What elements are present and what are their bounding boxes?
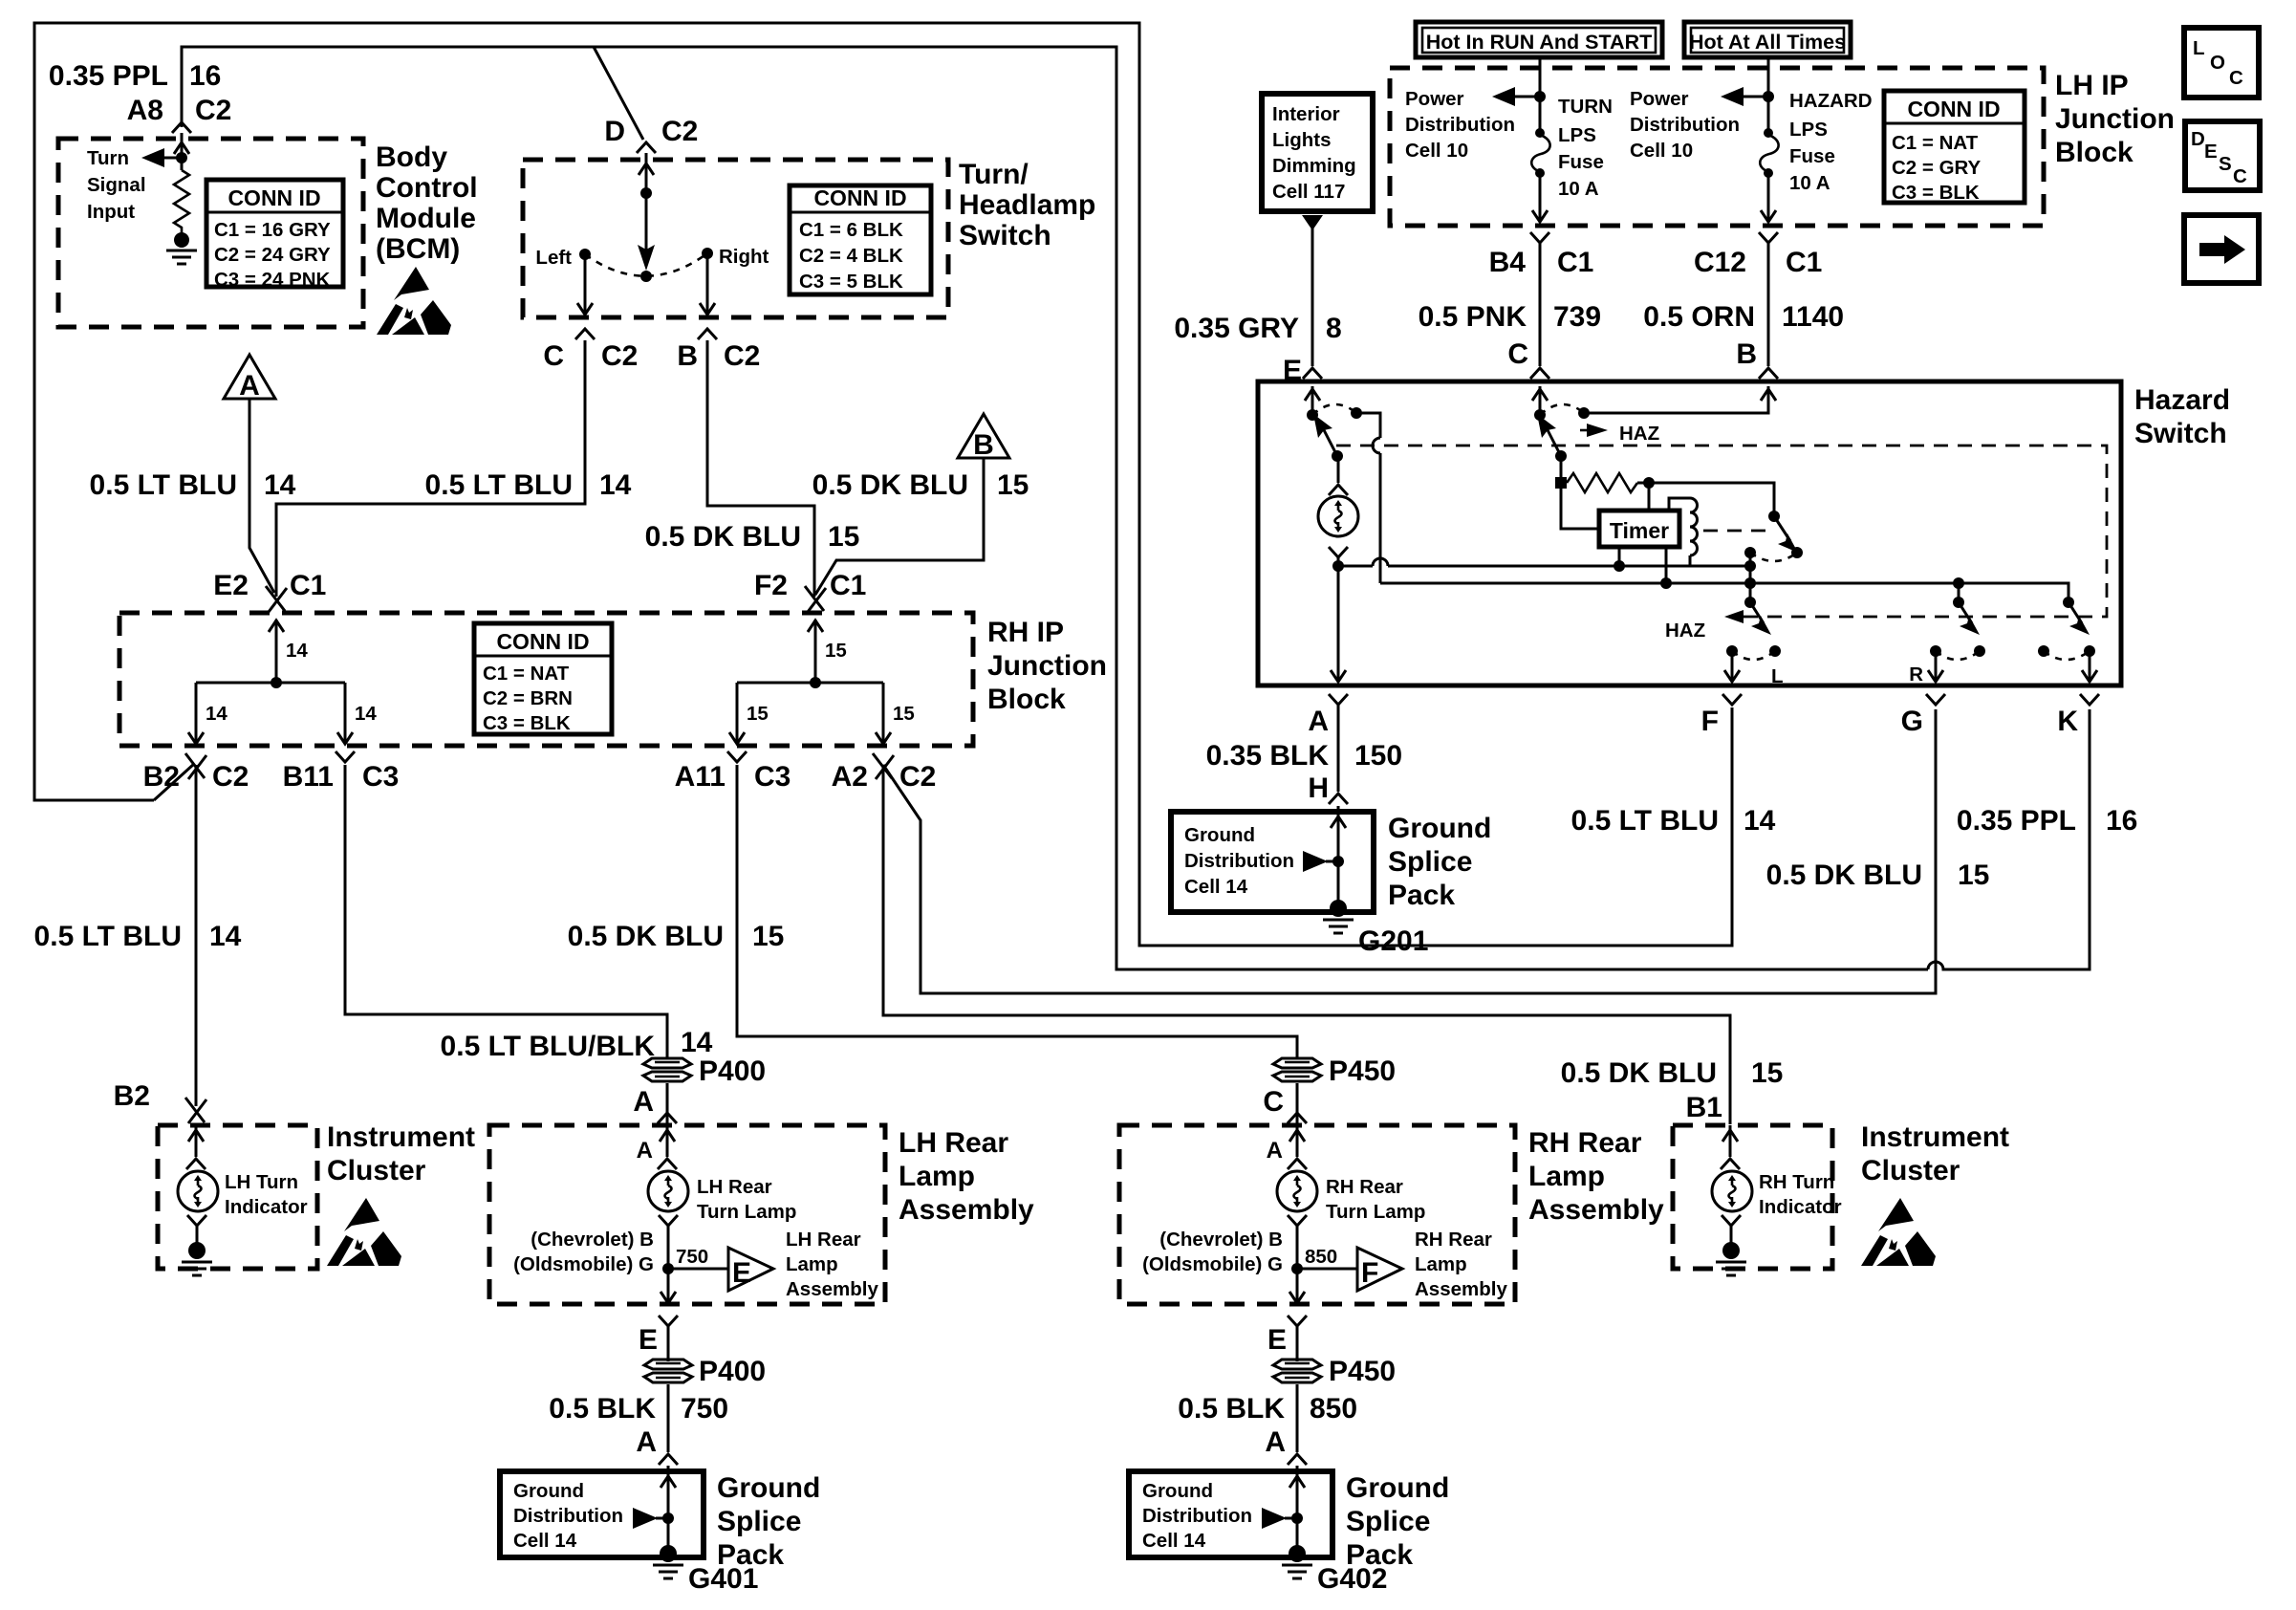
svg-text:CONN ID: CONN ID <box>496 629 589 654</box>
svg-text:14: 14 <box>209 921 242 952</box>
Ground Splice Pack G402 box <box>1129 1471 1332 1557</box>
svg-text:Power: Power <box>1405 88 1464 110</box>
svg-text:Indicator: Indicator <box>1759 1196 1842 1218</box>
svg-text:0.5 LT BLU: 0.5 LT BLU <box>34 921 182 952</box>
svg-text:LH Rear: LH Rear <box>786 1229 861 1251</box>
svg-text:Fuse: Fuse <box>1789 145 1835 167</box>
svg-text:B2: B2 <box>114 1080 150 1112</box>
wire: hop over G wire then continue to K <box>1928 709 2090 969</box>
svg-text:Distribution: Distribution <box>1405 114 1515 136</box>
wire: triangle B down, left, diagonal to F2 <box>815 458 984 595</box>
svg-text:P450: P450 <box>1329 1356 1396 1387</box>
branch to A11 <box>736 683 739 742</box>
svg-text:RH Turn: RH Turn <box>1759 1171 1834 1193</box>
svg-text:15: 15 <box>1751 1057 1783 1089</box>
svg-text:0.5 DK BLU: 0.5 DK BLU <box>568 921 724 952</box>
wire: into lamp <box>666 1125 669 1157</box>
ground G401 <box>660 1545 677 1562</box>
wire: A2 diagonal branch to hazard G <box>883 709 1936 993</box>
Body Control Module dashed box <box>58 139 363 327</box>
svg-text:C: C <box>1263 1086 1284 1118</box>
svg-text:Pack: Pack <box>1388 880 1455 911</box>
svg-text:Turn Lamp: Turn Lamp <box>697 1201 796 1223</box>
connector H <box>1329 794 1348 804</box>
svg-text:Assembly: Assembly <box>786 1278 878 1300</box>
branch to B11 <box>344 683 347 742</box>
svg-text:C3 = BLK: C3 = BLK <box>483 712 571 734</box>
svg-text:Instrument: Instrument <box>327 1121 475 1153</box>
svg-text:Assembly: Assembly <box>899 1194 1034 1226</box>
svg-text:0.5 LT BLU/BLK: 0.5 LT BLU/BLK <box>441 1031 656 1062</box>
coil actuation dashed <box>1703 530 1766 533</box>
connector P400 upper <box>643 1058 691 1081</box>
svg-text:C: C <box>543 340 564 372</box>
svg-text:Junction: Junction <box>987 650 1107 682</box>
svg-text:F2: F2 <box>754 570 788 601</box>
svg-text:C3: C3 <box>362 761 399 793</box>
svg-text:A: A <box>636 1426 657 1458</box>
wire: B2 down to LH instrument cluster <box>195 765 198 1106</box>
svg-text:14: 14 <box>1744 805 1776 837</box>
connector P400 lower <box>644 1360 692 1382</box>
svg-text:Headlamp: Headlamp <box>959 189 1095 221</box>
node Left <box>579 249 591 260</box>
lamp RH turn indicator <box>1712 1171 1752 1211</box>
svg-text:0.5 BLK: 0.5 BLK <box>549 1393 656 1425</box>
wire: A8 pin into BCM <box>181 133 184 170</box>
svg-text:15: 15 <box>997 469 1029 501</box>
svg-text:Switch: Switch <box>959 220 1051 251</box>
svg-text:C1 = NAT: C1 = NAT <box>483 663 570 685</box>
wire: A11 down and right to P450 <box>737 765 1297 1058</box>
svg-text:Instrument: Instrument <box>1861 1121 2009 1153</box>
wire: resistor junction to timer top <box>1648 483 1651 511</box>
svg-text:Cell 14: Cell 14 <box>513 1530 577 1552</box>
svg-text:16: 16 <box>2106 805 2137 837</box>
svg-text:14: 14 <box>681 1027 713 1058</box>
svg-text:B4: B4 <box>1489 247 1527 278</box>
wire: B4 down to hazard C input <box>1539 243 1542 366</box>
hazard C input arrow <box>1539 386 1542 415</box>
svg-text:0.5 LT BLU: 0.5 LT BLU <box>90 469 237 501</box>
svg-text:E2: E2 <box>213 570 249 601</box>
svg-text:C2: C2 <box>724 340 760 372</box>
svg-text:G: G <box>1901 706 1923 737</box>
LH Rear Lamp Assembly dashed box <box>489 1125 885 1304</box>
svg-text:E: E <box>2204 141 2218 163</box>
wire: R contact to G output <box>1935 651 1938 681</box>
svg-text:Module: Module <box>376 203 476 234</box>
wire: lamp return to box bottom <box>667 1269 670 1302</box>
ESD symbol LH cluster <box>327 1198 401 1266</box>
switch lamp <box>1337 456 1340 483</box>
ground G201 <box>1330 900 1347 917</box>
svg-text:LH Rear: LH Rear <box>697 1176 772 1198</box>
connector A11 C3 <box>727 751 747 762</box>
svg-text:Ground: Ground <box>1142 1480 1213 1502</box>
svg-text:C: C <box>1507 338 1528 370</box>
RH Instrument Cluster dashed box <box>1673 1125 1832 1269</box>
svg-text:LPS: LPS <box>1789 119 1828 141</box>
R switch arm <box>1959 602 1972 623</box>
svg-text:A8: A8 <box>127 95 163 126</box>
svg-text:739: 739 <box>1553 301 1601 333</box>
svg-text:14: 14 <box>286 640 308 662</box>
svg-text:B: B <box>677 340 698 372</box>
connector E below box <box>1288 1316 1307 1326</box>
svg-text:0.35 BLK: 0.35 BLK <box>1206 740 1330 772</box>
svg-text:150: 150 <box>1354 740 1402 772</box>
relay coil <box>1669 498 1690 511</box>
svg-text:G201: G201 <box>1358 925 1428 957</box>
svg-text:14: 14 <box>355 703 377 725</box>
svg-text:Right: Right <box>719 246 769 268</box>
svg-text:L: L <box>1771 665 1784 687</box>
svg-text:RH Rear: RH Rear <box>1415 1229 1492 1251</box>
connector K below hazard box <box>2080 694 2099 705</box>
svg-text:Pack: Pack <box>717 1539 784 1571</box>
svg-text:TURN: TURN <box>1558 96 1613 118</box>
svg-text:LH Rear: LH Rear <box>899 1127 1008 1159</box>
wire: C12 down to hazard B input <box>1767 243 1770 366</box>
svg-text:A: A <box>1308 706 1329 737</box>
svg-text:C3 = BLK: C3 = BLK <box>1892 182 1980 204</box>
wire: 0.5 LT BLU 14 loop from hazard F around page to B2 <box>34 23 1732 946</box>
wire: C hazard contact over to B input <box>1584 386 1768 413</box>
svg-text:Ground: Ground <box>717 1472 820 1504</box>
svg-text:L: L <box>2193 37 2205 59</box>
svg-text:(Oldsmobile) G: (Oldsmobile) G <box>513 1253 654 1275</box>
svg-text:0.5 DK BLU: 0.5 DK BLU <box>1766 859 1922 891</box>
connector C C2 <box>575 329 595 339</box>
svg-text:0.5 ORN: 0.5 ORN <box>1643 301 1755 333</box>
R switch pivot from bus <box>1958 583 1960 602</box>
svg-text:P450: P450 <box>1329 1055 1396 1087</box>
connector D C2 <box>637 142 656 153</box>
svg-text:P400: P400 <box>699 1055 766 1087</box>
svg-text:Assembly: Assembly <box>1415 1278 1507 1300</box>
svg-text:A11: A11 <box>675 761 726 793</box>
svg-text:Turn: Turn <box>87 147 129 169</box>
RH IP Junction Block dashed box <box>119 613 973 746</box>
wire: diagonal into B2 pin <box>154 764 194 800</box>
svg-text:Timer: Timer <box>1610 518 1669 543</box>
svg-text:LPS: LPS <box>1558 124 1596 146</box>
CONN ID table LH IP <box>1884 91 2025 204</box>
internal bus right <box>737 682 883 685</box>
svg-text:Turn/: Turn/ <box>959 159 1029 190</box>
lamp RH rear turn lamp <box>1277 1171 1317 1211</box>
svg-text:1140: 1140 <box>1782 301 1844 333</box>
svg-text:C3 = 24 PNK: C3 = 24 PNK <box>214 269 331 291</box>
svg-text:0.5 LT BLU: 0.5 LT BLU <box>425 469 573 501</box>
ESD symbol BCM <box>377 267 451 335</box>
svg-text:Distribution: Distribution <box>513 1505 623 1527</box>
svg-text:CONN ID: CONN ID <box>813 185 906 210</box>
svg-text:0.5 PNK: 0.5 PNK <box>1419 301 1527 333</box>
svg-text:(Oldsmobile) G: (Oldsmobile) G <box>1142 1253 1283 1275</box>
svg-text:15: 15 <box>1958 859 1989 891</box>
svg-text:15: 15 <box>893 703 915 725</box>
connector P450 lower <box>1273 1360 1321 1382</box>
svg-text:0.5 LT BLU: 0.5 LT BLU <box>1571 805 1719 837</box>
svg-text:14: 14 <box>599 469 632 501</box>
svg-text:A2: A2 <box>832 761 868 793</box>
svg-text:Ground: Ground <box>1388 813 1491 844</box>
fuse TURN LPS 10 A <box>1535 128 1545 138</box>
K switch arm <box>2069 602 2082 623</box>
LH IP Junction Block dashed box <box>1390 68 2044 226</box>
svg-text:RH IP: RH IP <box>987 617 1064 648</box>
svg-text:Input: Input <box>87 201 135 223</box>
wiper travel arc <box>585 253 707 276</box>
svg-text:Ground: Ground <box>513 1480 584 1502</box>
branch to A2 <box>882 683 885 742</box>
wire: HAZARD feed from Hot At All Times box <box>1767 57 1770 132</box>
C wiper arm <box>1545 424 1561 456</box>
svg-text:Indicator: Indicator <box>225 1196 308 1218</box>
svg-text:Cell 14: Cell 14 <box>1184 876 1248 898</box>
svg-text:C2 = 24 GRY: C2 = 24 GRY <box>214 244 331 266</box>
DESC reference box <box>2185 121 2260 190</box>
timer bottom taps <box>1618 547 1621 566</box>
connector P450 upper <box>1273 1058 1321 1081</box>
svg-text:LH IP: LH IP <box>2055 70 2129 101</box>
svg-text:Junction: Junction <box>2055 103 2175 135</box>
svg-text:C1: C1 <box>830 570 866 601</box>
svg-text:A: A <box>239 370 260 402</box>
svg-text:850: 850 <box>1305 1246 1337 1268</box>
svg-text:Cell 10: Cell 10 <box>1405 140 1468 162</box>
wire: E hazard contact to flasher bus <box>1356 413 1380 438</box>
CONN ID table BCM <box>206 180 343 291</box>
wire: relay contact down to L switch pivot <box>1749 553 1752 602</box>
wire: dimming feed down to hazard E input <box>1302 215 1323 230</box>
svg-text:Distribution: Distribution <box>1630 114 1740 136</box>
svg-text:C2: C2 <box>195 95 231 126</box>
svg-text:Interior: Interior <box>1272 103 1340 125</box>
E wiper arm <box>1321 424 1337 456</box>
wire: D pin into switch <box>645 153 648 193</box>
svg-text:C1: C1 <box>1557 247 1593 278</box>
connector A below hazard box <box>1329 694 1348 705</box>
wire: Left contact to C pin <box>584 254 587 314</box>
svg-text:Lamp: Lamp <box>1415 1253 1467 1275</box>
connector A2 C2 <box>873 753 894 779</box>
svg-text:F: F <box>1701 706 1719 737</box>
wire: lamp return to box bottom <box>1296 1269 1299 1302</box>
connector F below hazard box <box>1722 694 1742 705</box>
resistor R in BCM <box>174 170 189 233</box>
connector F2 C1 <box>805 586 826 612</box>
junction block internal: F2 arrow to bus <box>814 620 817 683</box>
svg-text:Dimming: Dimming <box>1272 155 1356 177</box>
svg-text:HAZARD: HAZARD <box>1789 90 1873 112</box>
svg-text:Lamp: Lamp <box>899 1161 975 1192</box>
svg-text:C3: C3 <box>754 761 791 793</box>
Interior Lights Dimming box <box>1262 94 1373 211</box>
svg-text:0.35 PPL: 0.35 PPL <box>1957 805 2076 837</box>
connector below lamp <box>1288 1215 1307 1226</box>
LOC reference box <box>2184 28 2259 98</box>
svg-text:D: D <box>604 116 625 147</box>
wire: lamp bus with hop <box>1338 565 1373 568</box>
svg-text:C1 = NAT: C1 = NAT <box>1892 132 1979 154</box>
wire: resistor lower tap to timer <box>1561 489 1599 529</box>
svg-text:S: S <box>2219 153 2232 175</box>
wire: L contact to F output <box>1731 651 1734 681</box>
connector B2 C2 <box>185 753 206 779</box>
C wiper travel arc <box>1540 404 1584 415</box>
svg-text:D: D <box>2191 128 2205 150</box>
svg-text:B: B <box>1736 338 1757 370</box>
svg-text:Left: Left <box>535 247 572 269</box>
wire: into lamp <box>1296 1125 1299 1157</box>
svg-text:Switch: Switch <box>2134 418 2227 449</box>
svg-text:(Chevrolet) B: (Chevrolet) B <box>531 1229 654 1251</box>
svg-text:10 A: 10 A <box>1789 172 1830 194</box>
timer box <box>1599 511 1679 547</box>
fuse HAZARD LPS 10 A <box>1764 128 1773 138</box>
svg-text:C2: C2 <box>661 116 698 147</box>
CONN ID table RH IP <box>474 623 612 734</box>
Hot In RUN And START box <box>1416 22 1662 57</box>
svg-text:O: O <box>2210 52 2225 74</box>
svg-text:A: A <box>1265 1426 1286 1458</box>
svg-text:15: 15 <box>825 640 847 662</box>
svg-text:E: E <box>732 1257 751 1289</box>
relay contact arm <box>1774 516 1790 541</box>
svg-text:850: 850 <box>1310 1393 1357 1425</box>
svg-text:Cell 14: Cell 14 <box>1142 1530 1206 1552</box>
svg-text:0.5 DK BLU: 0.5 DK BLU <box>645 521 801 553</box>
off-page triangle A <box>224 355 275 402</box>
lamp LH turn indicator <box>178 1171 218 1211</box>
svg-text:C1 = 6 BLK: C1 = 6 BLK <box>799 219 903 241</box>
svg-text:Turn Lamp: Turn Lamp <box>1326 1201 1425 1223</box>
L switch arm <box>1750 602 1764 623</box>
wire: Right contact to B pin <box>706 253 709 314</box>
wire: TURN feed from Hot In RUN box <box>1539 57 1542 132</box>
CONN ID table switch <box>790 185 931 294</box>
svg-text:Power: Power <box>1630 88 1689 110</box>
svg-text:C3 = 5 BLK: C3 = 5 BLK <box>799 271 903 293</box>
svg-text:15: 15 <box>752 921 784 952</box>
svg-text:B11: B11 <box>283 761 334 793</box>
wire: resistor to relay pivot <box>1649 483 1774 516</box>
svg-text:Splice: Splice <box>717 1506 801 1537</box>
svg-text:Hot In RUN And START: Hot In RUN And START <box>1426 31 1652 54</box>
svg-text:B2: B2 <box>143 761 180 793</box>
wire: switch B output down, right, down to F2 <box>707 340 814 597</box>
svg-text:HAZ: HAZ <box>1619 423 1659 445</box>
svg-text:Assembly: Assembly <box>1528 1194 1664 1226</box>
off-page triangle F <box>1357 1248 1402 1291</box>
svg-text:A: A <box>1267 1138 1283 1164</box>
svg-text:C2: C2 <box>212 761 249 793</box>
connector B11 C3 <box>336 751 355 762</box>
connector G below hazard box <box>1926 694 1945 705</box>
flasher output bus <box>1380 583 2069 602</box>
wire: triangle A down and diagonal to E2 <box>249 399 274 593</box>
wire: B11 down and right to P400 <box>345 765 667 1058</box>
svg-text:C2: C2 <box>601 340 638 372</box>
RH Rear Lamp Assembly dashed box <box>1119 1125 1515 1304</box>
node Right <box>702 248 713 259</box>
svg-text:Block: Block <box>987 684 1066 715</box>
svg-text:Fuse: Fuse <box>1558 151 1604 173</box>
svg-text:8: 8 <box>1326 313 1342 344</box>
branch to B2 <box>195 683 198 742</box>
svg-text:P400: P400 <box>699 1356 766 1387</box>
svg-text:C12: C12 <box>1694 247 1746 278</box>
node: junction to off-page E <box>662 1263 674 1274</box>
E wiper travel arc <box>1312 404 1356 415</box>
Hazard Switch box <box>1258 381 2121 685</box>
svg-text:C1 = 16 GRY: C1 = 16 GRY <box>214 219 331 241</box>
svg-text:750: 750 <box>676 1246 708 1268</box>
svg-text:15: 15 <box>828 521 859 553</box>
svg-text:RH Rear: RH Rear <box>1326 1176 1403 1198</box>
connector C12 C1 <box>1759 232 1778 243</box>
Ground Splice Pack G201 box <box>1171 812 1374 912</box>
connector E2 C1 <box>266 586 287 612</box>
svg-text:Control: Control <box>376 172 478 204</box>
connector A8 C2 <box>172 122 191 133</box>
ground G402 <box>1289 1545 1306 1562</box>
svg-text:C: C <box>2233 165 2247 187</box>
svg-text:16: 16 <box>189 60 221 92</box>
Turn/Headlamp Switch dashed box <box>523 160 948 317</box>
svg-text:14: 14 <box>206 703 227 725</box>
svg-text:E: E <box>1267 1324 1287 1356</box>
svg-text:Cell 117: Cell 117 <box>1272 181 1345 203</box>
svg-text:Lights: Lights <box>1272 129 1332 151</box>
HAZ engage arrow <box>1587 424 1608 437</box>
svg-text:0.5 DK BLU: 0.5 DK BLU <box>1561 1057 1717 1089</box>
svg-text:0.35 GRY: 0.35 GRY <box>1174 313 1299 344</box>
connector E below box <box>659 1316 678 1326</box>
svg-text:Distribution: Distribution <box>1184 850 1294 872</box>
svg-text:C2 = 4 BLK: C2 = 4 BLK <box>799 245 903 267</box>
svg-text:R: R <box>1909 664 1923 685</box>
svg-text:Hazard: Hazard <box>2134 384 2230 416</box>
svg-text:10 A: 10 A <box>1558 178 1599 200</box>
svg-text:Lamp: Lamp <box>786 1253 838 1275</box>
svg-text:B: B <box>973 429 994 461</box>
svg-text:Splice: Splice <box>1346 1506 1430 1537</box>
svg-text:Cluster: Cluster <box>327 1155 426 1186</box>
switch wiper arrow down <box>645 193 648 250</box>
wire: switch C output down, left, down to E2 <box>276 340 585 597</box>
K switch pivot <box>2063 597 2074 608</box>
wire: A2 straight branch to RH instrument cluster B1 <box>883 765 1730 1124</box>
lamp LH rear turn lamp <box>648 1171 688 1211</box>
Hot At All Times box <box>1684 22 1851 57</box>
svg-text:B1: B1 <box>1686 1092 1722 1123</box>
svg-text:E: E <box>639 1324 658 1356</box>
svg-text:Cell 10: Cell 10 <box>1630 140 1693 162</box>
svg-text:Splice: Splice <box>1388 846 1472 878</box>
node: splice arrow <box>633 1508 658 1529</box>
svg-text:A: A <box>637 1138 653 1164</box>
hazard E input arrow <box>1311 386 1314 415</box>
connector below lamp <box>659 1215 678 1226</box>
svg-text:Lamp: Lamp <box>1528 1161 1605 1192</box>
wire: lamp to A output <box>1337 566 1340 681</box>
svg-text:C1: C1 <box>290 570 326 601</box>
connector B4 C1 <box>1530 232 1549 243</box>
